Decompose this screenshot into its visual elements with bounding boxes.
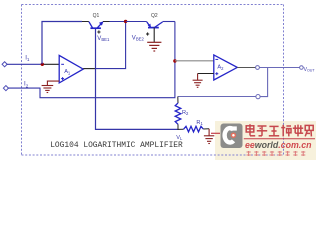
svg-text:Q1: Q1 bbox=[93, 13, 100, 19]
input terminal I1 bbox=[2, 62, 7, 67]
wire output feedback drop bbox=[260, 68, 267, 97]
resistor R1 bbox=[184, 126, 204, 132]
transistor Q2 bbox=[147, 22, 163, 28]
svg-text:Q2: Q2 bbox=[151, 13, 158, 19]
pin circle feedback bbox=[256, 95, 260, 99]
svg-text:eeworld.com.cn: eeworld.com.cn bbox=[245, 140, 312, 150]
watermark background bbox=[215, 121, 316, 160]
op-amp A2 plus marker bbox=[215, 72, 218, 75]
resistor R2 lead top bbox=[177, 97, 179, 104]
transistor Q1 bbox=[89, 22, 103, 29]
wire feedback rail to R2 bbox=[178, 96, 256, 98]
transistor Q2 emitter arrow bbox=[148, 24, 151, 28]
output terminal Vout bbox=[300, 66, 304, 70]
wire I1 to junction bbox=[7, 63, 42, 65]
svg-text:R1: R1 bbox=[196, 120, 203, 126]
op-amp A2 bbox=[214, 55, 238, 80]
wire I2 to bottom rail bbox=[8, 22, 175, 98]
pin circle VOUT upper bbox=[256, 66, 260, 70]
svg-text:VOUT: VOUT bbox=[304, 67, 316, 73]
wire Q2 base stem bbox=[153, 28, 155, 42]
wire junction to A1 inverting input bbox=[42, 63, 59, 65]
op-amp A2 minus marker bbox=[215, 58, 218, 60]
wire Q1 emitter to junction bbox=[110, 21, 126, 23]
op-amp A1 bbox=[59, 55, 83, 83]
node A2 input junction dot bbox=[173, 59, 176, 62]
ground at A2 + input bbox=[193, 74, 203, 88]
node top rail junction dot bbox=[124, 20, 127, 23]
input terminal I2 bbox=[3, 86, 8, 91]
wire Q1 emitter lead bbox=[103, 21, 110, 23]
svg-text:R2: R2 bbox=[182, 110, 189, 116]
wire A2 + input bbox=[198, 73, 214, 75]
svg-text:A2: A2 bbox=[217, 65, 224, 71]
wire Q2 emitter lead bbox=[163, 21, 175, 23]
resistor R1 lead left bbox=[178, 128, 184, 130]
wire Q1 collector lead bbox=[82, 21, 89, 23]
resistor R2 lead bottom bbox=[177, 124, 179, 130]
svg-text:VBE1: VBE1 bbox=[97, 36, 110, 42]
border frame (dashed box of LOG104 IC) bbox=[22, 5, 284, 156]
resistor R1 lead right bbox=[203, 128, 209, 130]
svg-text:VBE2: VBE2 bbox=[132, 36, 145, 42]
op-amp A1 minus marker bbox=[61, 63, 64, 65]
wire feedback riser left bbox=[42, 22, 82, 65]
plus marker VBE1 bbox=[97, 30, 100, 33]
node A1 inverting input junction dot bbox=[41, 63, 44, 66]
wire A1 output to riser bbox=[96, 22, 126, 69]
wire riser to A2 inverting input bbox=[175, 60, 214, 62]
wire Q1 base stem down to bottom corner bbox=[96, 28, 179, 129]
resistor R2 bbox=[175, 103, 181, 124]
op-amp A1 plus marker bbox=[61, 77, 64, 80]
logo chinese title strokes bbox=[246, 124, 313, 136]
logo icon bbox=[221, 124, 243, 149]
logo underline bbox=[244, 138, 315, 140]
logo left tick bbox=[211, 132, 220, 134]
logo slogan marks bbox=[247, 151, 306, 156]
wire A2 output bbox=[237, 67, 255, 69]
ground at R1 bbox=[204, 129, 214, 144]
plus marker VBE2 bbox=[146, 32, 149, 35]
wire A1 output bbox=[83, 68, 95, 70]
wire junction to Q2 bbox=[126, 21, 147, 23]
transistor Q1 emitter arrow bbox=[99, 21, 104, 25]
ground at Q2 base bbox=[147, 42, 161, 51]
ground at A1 + input bbox=[42, 81, 60, 92]
svg-text:A1: A1 bbox=[64, 69, 71, 75]
wire output to terminal bbox=[259, 67, 299, 69]
svg-text:LOG104 LOGARITHMIC AMPLIFIER: LOG104 LOGARITHMIC AMPLIFIER bbox=[50, 141, 183, 150]
